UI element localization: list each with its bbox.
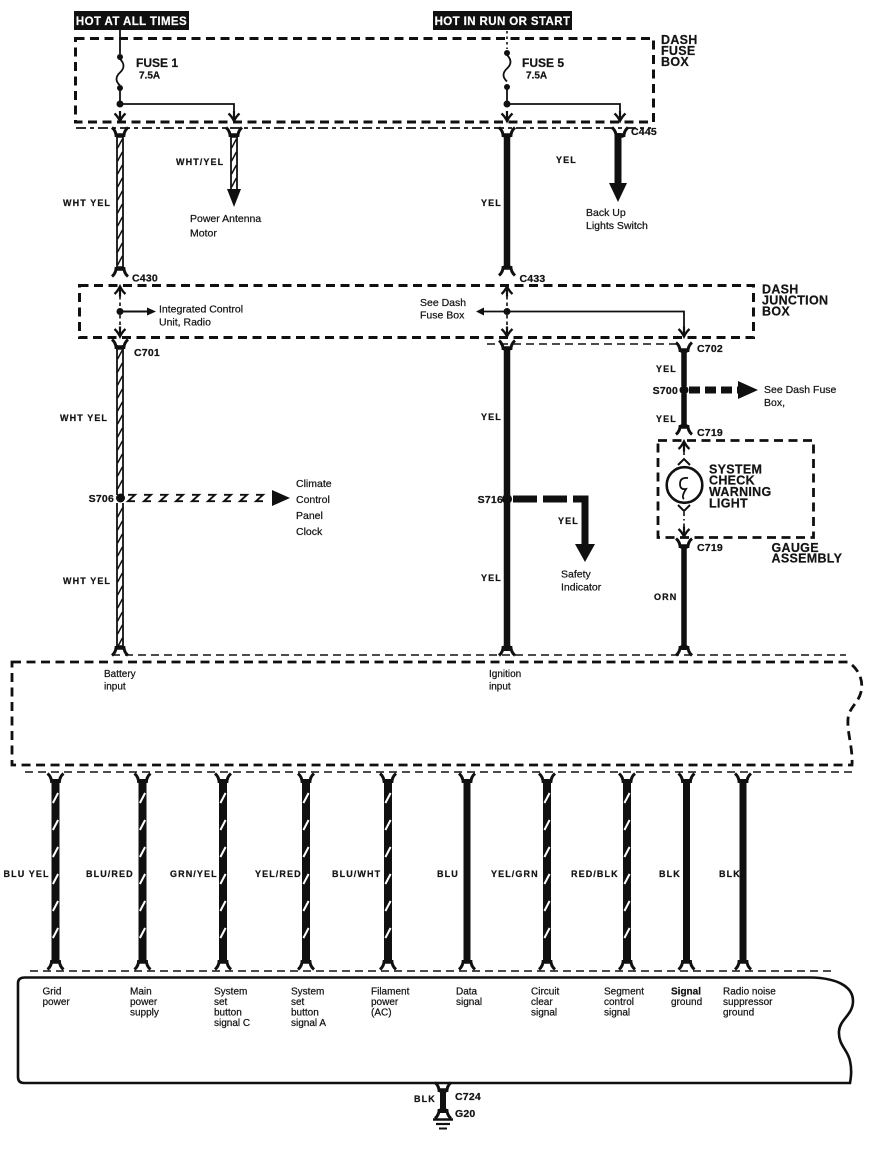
- splice S700: [680, 386, 689, 395]
- wire WHT/YEL left column lower: [116, 503, 118, 649]
- svg-text:S700: S700: [653, 385, 678, 397]
- wire F1 down arrow: [115, 111, 126, 121]
- svg-text:C719: C719: [697, 427, 723, 439]
- ground G20 symbol: [433, 1109, 453, 1129]
- wire inside gauge lower: [683, 512, 685, 528]
- ground wire stem: [440, 1090, 446, 1113]
- wire fuse5 lead dashed: [506, 31, 508, 49]
- svg-text:Integrated ControlUnit, Radio: Integrated ControlUnit, Radio: [159, 304, 243, 329]
- header box HOT IN RUN OR START: [433, 11, 572, 30]
- connector center cup below junction: [499, 341, 515, 351]
- fuse F1: [117, 54, 124, 91]
- connector C719 cup upper: [676, 425, 692, 435]
- svg-text:Back UpLights Switch: Back UpLights Switch: [586, 207, 648, 232]
- svg-text:Signal: Signal: [671, 987, 701, 998]
- svg-text:HOT IN RUN OR START: HOT IN RUN OR START: [435, 16, 571, 28]
- svg-text:BLK: BLK: [414, 1094, 436, 1104]
- svg-text:ground: ground: [671, 997, 702, 1008]
- striped branch to climate control: [128, 495, 135, 501]
- svg-text:GAUGEASSEMBLY: GAUGEASSEMBLY: [772, 541, 843, 566]
- thick branch down to safety indicator: [582, 496, 589, 547]
- thick dashed branch S700: [689, 387, 738, 394]
- arrowhead backup lights: [609, 183, 627, 202]
- wire BLU: [459, 774, 475, 970]
- svg-text:HOT AT ALL TIMES: HOT AT ALL TIMES: [76, 16, 187, 28]
- svg-text:DASHJUNCTIONBOX: DASHJUNCTIONBOX: [762, 283, 828, 319]
- bulb system check warning light: [667, 467, 703, 503]
- svg-text:YEL/GRN: YEL/GRN: [491, 869, 539, 879]
- node to ICU radio: [117, 308, 124, 315]
- svg-text:C702: C702: [697, 343, 723, 355]
- svg-text:RED/BLK: RED/BLK: [571, 869, 619, 879]
- arrowhead see dash fuse box right: [738, 381, 758, 399]
- svg-text:ORN: ORN: [654, 592, 677, 602]
- svg-text:Systemsetbuttonsignal C: Systemsetbuttonsignal C: [214, 987, 250, 1030]
- wire YEL/RED: [298, 774, 314, 970]
- svg-text:S716: S716: [478, 494, 503, 506]
- svg-text:Gridpower: Gridpower: [43, 987, 71, 1009]
- connector C701 cup: [112, 340, 128, 350]
- wire GRN/YEL: [215, 774, 231, 970]
- arrow to see dash fuse box left: [476, 308, 504, 316]
- svg-text:ClimateControlPanelClock: ClimateControlPanelClock: [296, 478, 332, 538]
- svg-text:C445: C445: [631, 126, 657, 138]
- svg-text:C433: C433: [520, 273, 546, 285]
- connector C430 arrow inside: [115, 287, 126, 297]
- svg-text:YEL: YEL: [556, 155, 577, 165]
- svg-text:BLU/WHT: BLU/WHT: [332, 869, 381, 879]
- connector C433 cup: [499, 266, 515, 276]
- bulb filament: [680, 478, 688, 499]
- connector C433 arrow inside: [502, 287, 513, 297]
- connector cup center into display: [499, 646, 515, 656]
- wire inside junction center lower: [506, 315, 508, 328]
- bulb terminal upper: [678, 459, 690, 465]
- thick YEL wire right lower: [681, 394, 687, 427]
- wire fuse1 lead from header: [119, 30, 121, 54]
- svg-text:Datasignal: Datasignal: [456, 987, 482, 1009]
- svg-text:WHT YEL: WHT YEL: [60, 413, 108, 423]
- splice S706: [116, 494, 125, 503]
- svg-text:G20: G20: [455, 1108, 475, 1120]
- svg-text:See DashFuse Box: See DashFuse Box: [420, 297, 466, 322]
- display unit dashed box: [12, 662, 862, 765]
- wire inside junction center: [506, 296, 508, 307]
- svg-text:C701: C701: [134, 347, 160, 359]
- wire branch F5 horizontal: [507, 104, 620, 112]
- connector C445 cup: [612, 128, 628, 138]
- thick YEL wire right upper: [681, 350, 687, 386]
- arrowhead climate control: [272, 490, 290, 506]
- svg-text:SYSTEMCHECKWARNINGLIGHT: SYSTEMCHECKWARNINGLIGHT: [709, 463, 772, 511]
- svg-text:YEL: YEL: [656, 414, 677, 424]
- svg-text:WHT YEL: WHT YEL: [63, 576, 111, 586]
- connector C702 cup: [676, 343, 692, 353]
- arrowhead safety indicator: [575, 544, 595, 562]
- control unit solid box: [18, 978, 853, 1084]
- connector row below junction: [487, 343, 678, 345]
- svg-text:7.5A: 7.5A: [139, 71, 160, 82]
- connector cup wire3: [499, 128, 515, 138]
- svg-text:C430: C430: [132, 273, 158, 285]
- svg-text:BLK: BLK: [659, 869, 681, 879]
- wire branch right to C702: [507, 312, 684, 329]
- dash fuse box outline: [76, 39, 654, 123]
- arrow into gauge box: [679, 442, 690, 452]
- connector cup wire2: [226, 128, 242, 138]
- display unit connector row top: [112, 654, 846, 656]
- connector C719 cup lower: [676, 539, 692, 549]
- connector C430 cup: [112, 267, 128, 277]
- label Signal ground: [671, 987, 702, 1009]
- svg-text:WHT/YEL: WHT/YEL: [176, 157, 224, 167]
- svg-text:See Dash FuseBox,: See Dash FuseBox,: [764, 384, 837, 409]
- svg-text:YEL: YEL: [481, 412, 502, 422]
- splice S716: [502, 494, 512, 504]
- svg-text:YEL: YEL: [558, 516, 579, 526]
- thick YEL wire center upper: [504, 136, 511, 266]
- junction node F1: [117, 101, 124, 108]
- svg-text:Ignitioninput: Ignitioninput: [489, 669, 521, 693]
- svg-text:WHT YEL: WHT YEL: [63, 198, 111, 208]
- svg-text:Systemsetbuttonsignal A: Systemsetbuttonsignal A: [291, 987, 326, 1030]
- wire YEL/GRN: [539, 774, 555, 970]
- svg-text:SafetyIndicator: SafetyIndicator: [561, 569, 602, 594]
- connector C724 cup: [435, 1083, 451, 1093]
- svg-text:YEL: YEL: [656, 364, 677, 374]
- fuse F5: [504, 50, 511, 90]
- arrow exit junction center: [502, 327, 513, 337]
- svg-text:BLU/RED: BLU/RED: [86, 869, 134, 879]
- wire WHT/YEL antenna branch: [230, 134, 232, 189]
- wire RED/BLK: [619, 774, 635, 970]
- connector cup ORN into display: [676, 646, 692, 656]
- dash junction box outline: [80, 286, 754, 338]
- svg-text:BLK: BLK: [719, 869, 741, 879]
- svg-text:Circuitclearsignal: Circuitclearsignal: [531, 987, 560, 1019]
- wire branch down arrow: [229, 111, 240, 121]
- wire BLK 2: [735, 774, 751, 970]
- svg-text:YEL/RED: YEL/RED: [255, 869, 302, 879]
- wire WHT/YEL left column upper: [116, 134, 118, 270]
- svg-text:Segmentcontrolsignal: Segmentcontrolsignal: [604, 987, 644, 1019]
- svg-text:S706: S706: [89, 493, 114, 505]
- thick YEL wire center mid: [504, 347, 511, 651]
- wire WHT/YEL left column middle: [116, 345, 118, 495]
- junction node F5: [504, 101, 511, 108]
- connector cup wire1: [112, 128, 128, 138]
- svg-text:Batteryinput: Batteryinput: [104, 669, 136, 693]
- arrow to power antenna motor: [227, 189, 241, 207]
- control unit connector row: [30, 970, 831, 972]
- svg-text:C724: C724: [455, 1091, 481, 1103]
- connector cup battery into display: [112, 646, 128, 656]
- arrow to integrated control unit: [123, 308, 156, 316]
- wire BLU/RED: [135, 774, 151, 970]
- wire F5 down arrow: [502, 111, 513, 121]
- arrow exit junction right: [679, 327, 690, 337]
- wire BLU/YEL: [48, 774, 64, 970]
- svg-text:YEL: YEL: [481, 198, 502, 208]
- wire branch F5 down arrow: [615, 111, 626, 121]
- wire below F5: [506, 89, 508, 103]
- connector row line below fuse box: [76, 127, 651, 129]
- wire inside junction left lower: [119, 315, 121, 327]
- header box HOT AT ALL TIMES: [74, 11, 189, 30]
- svg-text:FUSE 1: FUSE 1: [136, 56, 178, 70]
- svg-text:Radio noisesuppressorground: Radio noisesuppressorground: [723, 987, 776, 1019]
- wire branch F1 horizontal: [120, 104, 234, 112]
- node see dash fuse box: [504, 308, 511, 315]
- thick dashed branch S716: [513, 496, 585, 503]
- arrow exit gauge box: [679, 527, 690, 537]
- arrow exit junction left: [115, 327, 126, 337]
- svg-text:GRN/YEL: GRN/YEL: [170, 869, 218, 879]
- svg-text:7.5A: 7.5A: [526, 71, 547, 82]
- bulb terminal lower: [678, 505, 690, 511]
- svg-text:FUSE 5: FUSE 5: [522, 56, 564, 70]
- wire below F1: [119, 90, 121, 103]
- gauge warning light box: [658, 441, 814, 538]
- wire BLK 1: [679, 774, 695, 970]
- svg-text:C719: C719: [697, 542, 723, 554]
- wire inside gauge upper: [683, 451, 685, 458]
- wire BLU/WHT: [380, 774, 396, 970]
- svg-text:Filamentpower(AC): Filamentpower(AC): [371, 987, 410, 1019]
- svg-text:BLU YEL: BLU YEL: [4, 869, 50, 879]
- wire inside junction left: [119, 296, 121, 307]
- svg-text:Mainpowersupply: Mainpowersupply: [130, 987, 159, 1019]
- display unit connector row bottom: [25, 771, 857, 773]
- thick ORN wire: [681, 546, 687, 650]
- thick YEL arrow to backup lights: [615, 133, 622, 184]
- svg-text:YEL: YEL: [481, 573, 502, 583]
- svg-text:Power AntennaMotor: Power AntennaMotor: [190, 213, 261, 240]
- svg-text:DASHFUSEBOX: DASHFUSEBOX: [661, 33, 698, 69]
- svg-text:BLU: BLU: [437, 869, 459, 879]
